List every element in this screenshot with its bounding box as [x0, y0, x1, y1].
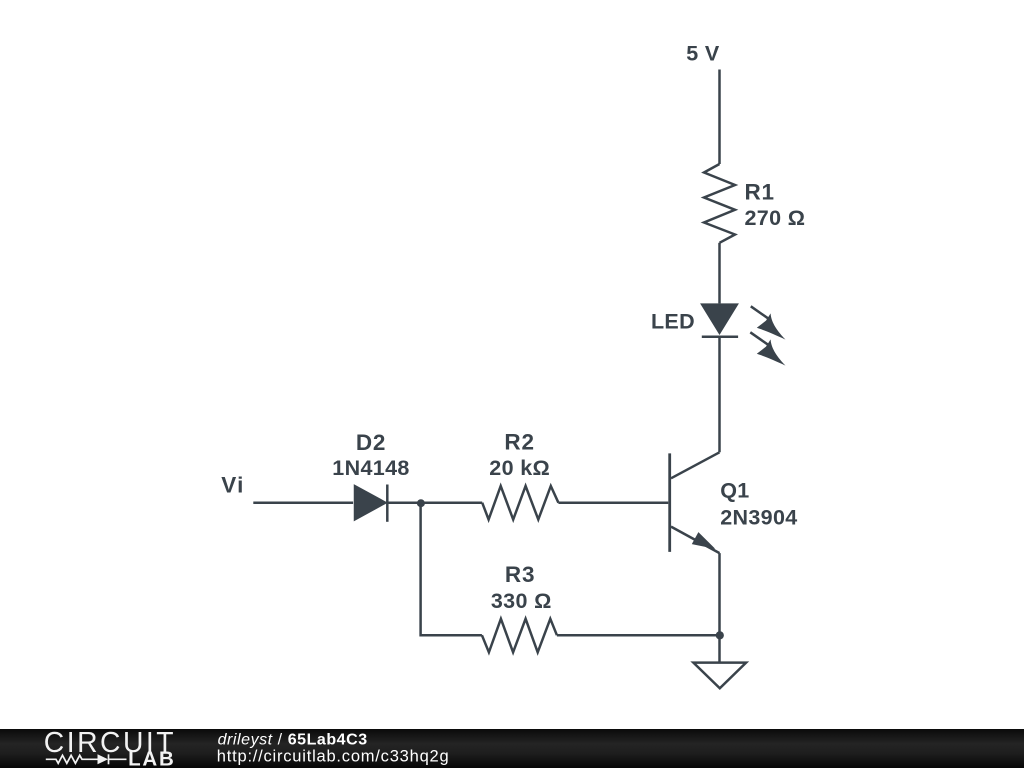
svg-text:R3: R3	[505, 562, 535, 587]
transistor Q1 base bar	[668, 453, 671, 552]
node junction emitter/R3/ground	[716, 631, 724, 639]
wire D2 cathode to node	[388, 501, 482, 504]
svg-text:drileyst / 65Lab4C3: drileyst / 65Lab4C3	[218, 731, 368, 748]
label R3 value 330 ohm	[491, 562, 552, 613]
wire R3 to emitter node	[557, 634, 720, 637]
svg-text:R1: R1	[745, 179, 775, 204]
wire R2 to Q1 base	[558, 501, 668, 504]
logo resistor-diode symbol	[46, 754, 127, 764]
LED cathode bar	[702, 335, 738, 338]
footer bar	[0, 729, 1024, 768]
wire R1 to LED	[718, 243, 721, 304]
node junction D2/R2/R3	[417, 499, 425, 507]
transistor Q1 emitter lead	[671, 527, 720, 554]
wire 5V supply to R1	[718, 70, 721, 165]
ground	[693, 663, 746, 689]
svg-text:5 V: 5 V	[686, 42, 720, 66]
label Q1 2N3904	[720, 478, 797, 529]
svg-text:20 kΩ: 20 kΩ	[489, 456, 550, 480]
svg-text:330 Ω: 330 Ω	[491, 589, 552, 613]
svg-text:http://circuitlab.com/c33hq2g: http://circuitlab.com/c33hq2g	[217, 747, 450, 765]
svg-text:LED: LED	[651, 309, 695, 333]
resistor R2	[482, 486, 558, 520]
svg-text:1N4148: 1N4148	[332, 456, 409, 480]
diode D2 triangle	[355, 486, 385, 519]
LED anode triangle	[702, 305, 736, 333]
label R2 value 20 kohm	[489, 429, 550, 480]
label D2 1N4148	[332, 430, 409, 480]
wire Q1 emitter down	[718, 553, 721, 635]
wire Vi to D2 anode	[253, 501, 353, 504]
wire node to ground	[718, 635, 721, 662]
svg-text:Vi: Vi	[221, 473, 244, 498]
wire node down to R3	[421, 503, 482, 635]
wire LED to Q1 collector	[718, 337, 721, 453]
resistor R1	[704, 164, 735, 243]
diode D2 cathode bar	[386, 485, 389, 522]
svg-text:R2: R2	[504, 429, 534, 454]
label R1 value 270 ohm	[745, 179, 806, 230]
svg-text:D2: D2	[356, 430, 386, 455]
LED arrow 1	[751, 306, 786, 339]
svg-text:Q1: Q1	[720, 478, 749, 502]
svg-text:LAB: LAB	[128, 748, 176, 768]
svg-text:2N3904: 2N3904	[720, 506, 797, 530]
svg-text:270 Ω: 270 Ω	[745, 206, 806, 230]
resistor R3	[482, 619, 557, 653]
LED arrow 2	[750, 332, 785, 365]
transistor Q1 collector lead	[671, 452, 720, 478]
transistor Q1 emitter arrow	[692, 532, 716, 549]
